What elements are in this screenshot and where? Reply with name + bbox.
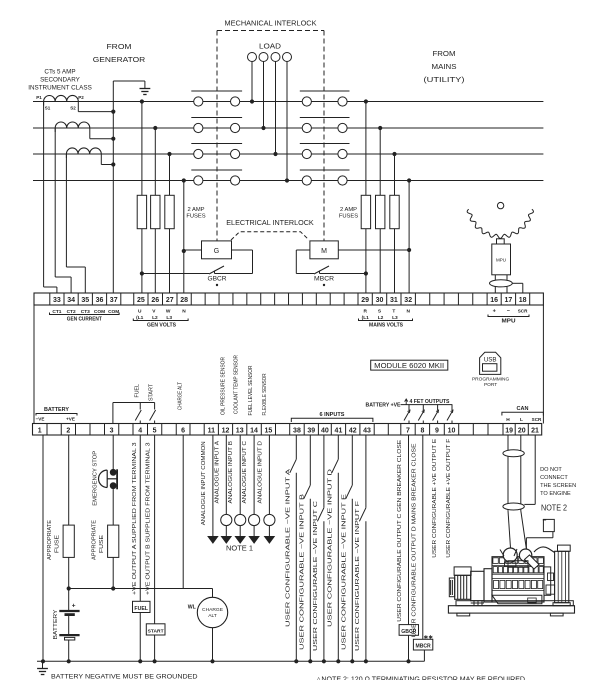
svg-text:N: N	[406, 309, 410, 315]
front pulleys	[546, 585, 555, 594]
svg-text:MBCR: MBCR	[415, 644, 431, 650]
svg-text:2 AMP: 2 AMP	[340, 207, 357, 213]
svg-text:32: 32	[404, 297, 412, 304]
svg-text:FLEXIBLE SENSOR: FLEXIBLE SENSOR	[262, 373, 268, 415]
wire GBCR to bus	[408, 635, 410, 661]
FET output contact at x=437.6	[437, 405, 439, 410]
svg-text:MBCR: MBCR	[314, 276, 334, 283]
wire e-stop to fuse 2	[112, 485, 114, 525]
charge alternator	[197, 597, 227, 627]
svg-text:6: 6	[181, 427, 185, 434]
injector row	[494, 580, 499, 588]
svg-text:NOTE 2: NOTE 2	[541, 504, 567, 513]
svg-text:USER CONFIGURABLE −VE INPUT E: USER CONFIGURABLE −VE INPUT E	[341, 493, 347, 650]
alternator drum	[455, 575, 471, 599]
svg-text:P2: P2	[78, 95, 84, 100]
svg-text:ANALOGUE INPUT D: ANALOGUE INPUT D	[257, 441, 263, 504]
earth ground symbol (CT common)	[140, 88, 151, 90]
MPU wires to terminals 16 17	[494, 275, 496, 293]
svg-text:41: 41	[335, 427, 343, 434]
svg-text:P1: P1	[36, 95, 42, 100]
svg-text:FUEL: FUEL	[134, 606, 148, 612]
MPU plug	[497, 239, 505, 244]
svg-text:TO ENGINE: TO ENGINE	[540, 491, 571, 497]
svg-text:27: 27	[166, 297, 174, 304]
battery cell symbol	[68, 589, 70, 611]
svg-text:5: 5	[153, 427, 157, 434]
CT coil CT3	[66, 148, 101, 154]
svg-text:14: 14	[250, 427, 258, 434]
MPU twisted pair loop	[490, 280, 513, 287]
svg-text:USER CONFIGURABLE +VE OUTPUT F: USER CONFIGURABLE +VE OUTPUT F	[446, 438, 452, 558]
wire CT3 S1 to terminal 35	[65, 154, 67, 267]
bus row 1 wire	[33, 101, 543, 103]
svg-text:USB: USB	[484, 356, 497, 363]
alternator legs	[473, 601, 475, 606]
wire gen fuse1 outlet to terminal 25	[141, 274, 143, 294]
svg-text:R: R	[363, 309, 367, 315]
svg-text:37: 37	[110, 297, 118, 304]
svg-text:+VE OUTPUT A SUPPLIED FROM TER: +VE OUTPUT A SUPPLIED FROM TERMINAL 3	[132, 443, 138, 596]
MPU screen wire to terminal 18	[512, 282, 523, 284]
radiator core	[555, 551, 569, 602]
svg-text:CTs 5 AMP: CTs 5 AMP	[44, 69, 75, 76]
engine mounts	[500, 550, 504, 557]
fuse F4 (mains 2A)	[361, 195, 370, 228]
svg-text:USER CONFIGURABLE OUTPUT D MAI: USER CONFIGURABLE OUTPUT D MAINS BREAKER…	[411, 443, 417, 638]
svg-text:19: 19	[505, 427, 513, 434]
terminating resistor (note 2)	[525, 538, 527, 550]
contactor coil M	[310, 241, 338, 259]
svg-text:OIL PRESSURE SENSOR: OIL PRESSURE SENSOR	[220, 357, 226, 415]
svg-text:FUEL: FUEL	[134, 384, 140, 398]
auxiliary contact MBCR	[296, 273, 314, 275]
battery negative bus	[37, 660, 424, 662]
FET output contact at x=409	[408, 405, 410, 410]
wire CT2 S1 to terminal 34	[54, 128, 56, 277]
svg-text:USER CONFIGURABLE −VE INPUT F: USER CONFIGURABLE −VE INPUT F	[355, 500, 361, 651]
wire mains fuse1 outlet to terminal 29	[365, 274, 367, 294]
oil pan	[492, 595, 542, 604]
wire mains fuse 2 to terminal 30	[379, 229, 381, 293]
svg-text:MPU: MPU	[502, 319, 516, 325]
load feeder 3	[275, 62, 277, 155]
svg-text:20: 20	[518, 427, 526, 434]
generator contactor pole 3	[191, 143, 242, 145]
svg-text:T: T	[392, 309, 395, 315]
svg-text:START: START	[149, 383, 155, 401]
wire terminal 5 to START box	[154, 435, 156, 624]
wire gen neutral row4 to terminal 28	[182, 178, 186, 182]
CT coil CT2	[55, 122, 90, 128]
svg-text:ANALOGUE INPUT A: ANALOGUE INPUT A	[214, 441, 220, 504]
relay MBCR	[413, 639, 432, 650]
wire row1 to gen fuse 1	[140, 99, 144, 103]
svg-text:FROM: FROM	[107, 42, 132, 51]
svg-text:4: 4	[138, 427, 142, 434]
svg-text:MECHANICAL INTERLOCK: MECHANICAL INTERLOCK	[225, 19, 317, 28]
wire START box to bus	[154, 635, 156, 661]
svg-text:BATTERY NEGATIVE MUST BE GROUN: BATTERY NEGATIVE MUST BE GROUNDED	[51, 674, 198, 680]
svg-text:ELECTRICAL INTERLOCK: ELECTRICAL INTERLOCK	[226, 220, 314, 227]
svg-text:GENERATOR: GENERATOR	[93, 55, 146, 64]
wire mains fuse 1 to terminal 29	[365, 229, 367, 274]
mains contactor pole 3	[300, 143, 350, 145]
svg-text:G: G	[214, 248, 219, 255]
mains contactor pole 4	[300, 169, 350, 171]
CT common bus wire	[112, 81, 114, 293]
load feeder 2	[263, 62, 265, 129]
wire FUEL box to bus	[139, 613, 141, 662]
load feeder 4	[286, 62, 288, 181]
crankcase line	[492, 589, 544, 591]
analogue input wire terminal 11	[212, 435, 214, 536]
analogue input wire terminal 15	[268, 435, 270, 514]
svg-text:USER CONFIGURABLE −VE INPUT A: USER CONFIGURABLE −VE INPUT A	[285, 468, 291, 627]
air pipe to radiator	[534, 547, 555, 553]
svg-text:34: 34	[67, 297, 75, 304]
svg-text:GEN CURRENT: GEN CURRENT	[67, 317, 102, 323]
svg-text:+: +	[493, 309, 496, 315]
svg-text:SCR: SCR	[518, 309, 528, 314]
svg-text:40: 40	[321, 427, 329, 434]
engine block	[492, 557, 544, 602]
electrical interlock dashed link	[231, 232, 309, 240]
svg-text:USER CONFIGURABLE −VE INPUT D: USER CONFIGURABLE −VE INPUT D	[327, 469, 333, 627]
fuse F2 (gen 2A)	[151, 195, 160, 228]
svg-text:21: 21	[531, 427, 539, 434]
svg-text:START: START	[148, 628, 164, 634]
svg-text:15: 15	[265, 427, 273, 434]
svg-text:43: 43	[363, 427, 371, 434]
wire M coil to mains neutral	[338, 249, 409, 251]
fuse F1 (gen 2A)	[137, 195, 146, 228]
bracket GEN CURRENT	[50, 313, 120, 315]
svg-text:BATTERY: BATTERY	[44, 407, 70, 413]
wire fuse to battery rail	[68, 557, 70, 588]
svg-text:EMERGENCY STOP: EMERGENCY STOP	[93, 450, 99, 505]
svg-text:3: 3	[110, 427, 114, 434]
input wire terminal 42	[351, 435, 353, 485]
block mid line	[492, 573, 544, 575]
svg-text:USER CONFIGURABLE OUTPUT C GEN: USER CONFIGURABLE OUTPUT C GEN BREAKER C…	[397, 439, 403, 621]
flywheel housing	[484, 569, 492, 602]
svg-text:USER CONFIGURABLE −VE INPUT B: USER CONFIGURABLE −VE INPUT B	[299, 493, 305, 650]
svg-text:LOAD: LOAD	[259, 44, 281, 51]
output wire terminal 8 to MBCR	[422, 435, 424, 639]
svg-text:WL: WL	[188, 605, 197, 611]
CAN twisted pair loop 2	[503, 503, 524, 510]
fuse F3 (gen 2A)	[165, 195, 174, 228]
wire rail to charge alt WL	[212, 589, 214, 598]
input wire terminal 41	[337, 435, 339, 459]
svg-text:CAN: CAN	[517, 406, 529, 412]
wire mains neutral row4 to terminal 32	[407, 178, 411, 182]
turbo left	[503, 548, 517, 562]
front gear housing	[544, 567, 551, 595]
svg-text:FUSE: FUSE	[99, 535, 105, 553]
fuel-start rail	[112, 403, 114, 424]
svg-text:1: 1	[38, 427, 42, 434]
contactor coil G	[202, 241, 232, 259]
wire mains row2 to fuse 2	[378, 126, 382, 130]
svg-text:GEN VOLTS: GEN VOLTS	[147, 323, 177, 329]
svg-text:10: 10	[448, 427, 456, 434]
input wire terminal 43	[365, 435, 367, 508]
svg-text:25: 25	[137, 297, 145, 304]
svg-text:2 AMP: 2 AMP	[187, 207, 204, 213]
CT coil CT1	[44, 95, 79, 101]
svg-text:16: 16	[490, 297, 498, 304]
svg-text:CHARGE ALT: CHARGE ALT	[178, 381, 184, 410]
cylinder head band	[492, 565, 544, 567]
label MODULE 6020 MKII	[371, 360, 448, 370]
relay GBCR	[399, 625, 418, 636]
START relay box	[146, 624, 165, 635]
input wire terminal 40	[323, 435, 325, 508]
svg-text:MODULE 6020 MKII: MODULE 6020 MKII	[374, 363, 444, 370]
svg-text:29: 29	[361, 297, 369, 304]
analogue input wire terminal 12	[225, 435, 227, 514]
mechanical interlock dashed box	[217, 30, 324, 32]
wire N-bus to G coil	[182, 249, 186, 253]
svg-text:9: 9	[435, 427, 439, 434]
svg-text:FROM: FROM	[433, 49, 456, 58]
generator contactor pole 1	[191, 90, 242, 92]
svg-text:U: U	[138, 309, 142, 315]
bus row 3 wire	[33, 153, 543, 155]
svg-text:PORT: PORT	[484, 382, 497, 388]
mains contactor pole 2	[300, 117, 350, 119]
svg-text:28: 28	[180, 297, 188, 304]
exhaust elbow	[525, 555, 540, 569]
genset sub-rail	[456, 601, 573, 606]
wire terminal 6 to charge alt rail	[182, 435, 184, 589]
svg-text:30: 30	[376, 297, 384, 304]
generator contactor pole 4	[191, 169, 242, 171]
svg-text:APPROPRIATE: APPROPRIATE	[92, 520, 98, 560]
svg-text:8: 8	[420, 427, 424, 434]
svg-text:SCR: SCR	[532, 417, 542, 422]
fuse F5 (mains 2A)	[376, 195, 385, 228]
svg-text:38: 38	[293, 427, 301, 434]
svg-text:4 FET OUTPUTS: 4 FET OUTPUTS	[410, 399, 451, 405]
wire row2 to gen fuse 2	[153, 126, 157, 130]
svg-text:+VE OUTPUT B SUPPLIED FROM TER: +VE OUTPUT B SUPPLIED FROM TERMINAL 3	[146, 443, 152, 596]
skid foot left	[457, 613, 470, 616]
svg-text:18: 18	[519, 297, 527, 304]
wire M coil to MBCR	[296, 249, 310, 251]
svg-text:GBCR: GBCR	[208, 276, 227, 283]
svg-text:BATTERY +VE: BATTERY +VE	[366, 402, 402, 408]
svg-text:COOLANT TEMP SENSOR: COOLANT TEMP SENSOR	[234, 355, 240, 414]
wire row3 to gen fuse 3	[167, 152, 171, 156]
svg-text:MAINS: MAINS	[432, 62, 457, 71]
svg-text:ANALOGUE INPUT C: ANALOGUE INPUT C	[242, 441, 248, 504]
load feeder 1	[251, 62, 253, 102]
svg-text:H: H	[506, 417, 510, 423]
input wire terminal 38	[295, 435, 297, 459]
wire MBCR to bus	[423, 650, 425, 661]
wire gen fuse 2 to terminal 26	[154, 229, 156, 293]
gear center mark	[497, 202, 503, 208]
wire G coil to GBCR	[232, 249, 253, 251]
earth ground (battery negative)	[42, 661, 44, 668]
svg-text:S1: S1	[45, 106, 51, 111]
wire fuse2 to battery rail	[112, 557, 114, 588]
alternator adapter	[471, 571, 484, 600]
svg-text:26: 26	[151, 297, 159, 304]
svg-text:ALT: ALT	[208, 613, 217, 619]
svg-text:APPROPRIATE: APPROPRIATE	[47, 520, 53, 560]
rocker covers	[493, 558, 498, 564]
svg-text:S2: S2	[70, 106, 76, 111]
svg-text:33: 33	[53, 297, 61, 304]
svg-text:7: 7	[406, 427, 410, 434]
svg-text:CHARGE: CHARGE	[202, 607, 224, 613]
wire terminal 4 to FUEL box	[139, 435, 141, 601]
svg-text:6 INPUTS: 6 INPUTS	[320, 412, 346, 418]
contact output START	[154, 403, 156, 410]
wire terminal 3 down	[112, 435, 114, 472]
svg-text:USER CONFIGURABLE −VE INPUT C: USER CONFIGURABLE −VE INPUT C	[313, 501, 319, 651]
svg-text:36: 36	[96, 297, 104, 304]
input wire terminal 39	[309, 435, 311, 485]
wire gen fuse 1 to terminal 25	[141, 229, 143, 274]
svg-text:THE SCREEN: THE SCREEN	[540, 483, 576, 489]
svg-text:W: W	[166, 309, 171, 315]
svg-text:MAINS VOLTS: MAINS VOLTS	[369, 323, 404, 329]
svg-text:17: 17	[505, 297, 513, 304]
flywheel gear teeth	[467, 209, 533, 238]
generator contactor pole 2	[191, 117, 242, 119]
svg-text:SECONDARY: SECONDARY	[40, 77, 81, 84]
CAN wires to engine ECU	[508, 511, 511, 548]
battery positive rail	[69, 588, 213, 590]
module body outline	[33, 305, 35, 424]
FUEL relay box	[133, 601, 151, 612]
analogue input wire terminal 14	[253, 435, 255, 514]
svg-text:FUSE: FUSE	[55, 535, 61, 553]
svg-text:+: +	[72, 603, 76, 610]
svg-text:INSTRUMENT CLASS: INSTRUMENT CLASS	[28, 85, 92, 92]
output wire terminal 7 to GBCR	[408, 435, 410, 625]
fuse appropriate (e-stop)	[108, 525, 119, 557]
svg-text:△NOTE 2: 120 Ω TERMINATING RES: △NOTE 2: 120 Ω TERMINATING RESISTOR MAY …	[316, 674, 525, 680]
CAN twisted pair loop 1	[503, 450, 524, 457]
wire mains fuse 3 to terminal 31	[394, 229, 396, 293]
radiator base	[553, 603, 570, 606]
CAN L wire	[520, 435, 522, 511]
svg-text:+VE: +VE	[66, 416, 75, 421]
svg-text:FUEL LEVEL SENSOR: FUEL LEVEL SENSOR	[248, 365, 254, 415]
engine top housing	[508, 561, 528, 568]
svg-text:2: 2	[66, 427, 70, 434]
bus row 4 wire	[33, 180, 543, 182]
svg-text:L: L	[520, 417, 523, 423]
genset base skid	[448, 606, 574, 613]
fuse F6 (mains 2A)	[390, 195, 399, 228]
svg-text:31: 31	[390, 297, 398, 304]
svg-text:CONNECT: CONNECT	[540, 475, 568, 481]
wire gen fuse 3 to terminal 27	[169, 229, 171, 293]
bus row 2 wire	[33, 127, 543, 129]
analogue input wire terminal 13	[239, 435, 241, 514]
bracket MAINS VOLTS	[359, 319, 413, 321]
svg-text:FUSES: FUSES	[339, 214, 358, 220]
alternator end cap	[449, 578, 454, 597]
skid foot right	[550, 613, 563, 616]
turbo right	[519, 549, 531, 561]
svg-text:FUSES: FUSES	[186, 214, 205, 220]
svg-text:12: 12	[222, 427, 230, 434]
svg-text:ANALOGUE INPUT B: ANALOGUE INPUT B	[228, 441, 234, 504]
CAN H wire	[507, 435, 509, 511]
wire mains row1 to fuse 1	[364, 99, 368, 103]
svg-text:42: 42	[349, 427, 357, 434]
fuse appropriate (battery +)	[63, 525, 74, 557]
bracket MPU	[488, 315, 529, 317]
wire mains row3 to fuse 3	[392, 152, 396, 156]
svg-text:∗∗: ∗∗	[423, 635, 433, 641]
alternator top box	[454, 567, 471, 575]
wire charge alt to bus	[212, 628, 214, 662]
wire CT1 S1 to terminal 33	[43, 102, 45, 288]
module bottom terminal strip	[33, 424, 542, 436]
svg-text:39: 39	[307, 427, 315, 434]
svg-text:MPU: MPU	[496, 258, 506, 263]
CAN screen wire	[534, 435, 536, 504]
bracket GEN VOLTS	[133, 319, 188, 321]
contact output FUEL	[139, 403, 141, 410]
FET output contact at x=452.0	[451, 405, 453, 410]
svg-text:13: 13	[236, 427, 244, 434]
svg-text:11: 11	[208, 427, 216, 434]
svg-text:DO NOT: DO NOT	[540, 467, 562, 473]
svg-text:NOTE 1: NOTE 1	[226, 544, 253, 553]
svg-text:−VE: −VE	[36, 416, 45, 421]
module top terminal strip	[34, 293, 543, 305]
wire terminal 1 to bus	[42, 435, 44, 661]
wire terminal 2 down	[68, 435, 70, 525]
FET output contact at x=423.3	[422, 405, 424, 410]
MPU body	[492, 244, 511, 275]
svg-text:ANALOGUE INPUT COMMON: ANALOGUE INPUT COMMON	[201, 441, 207, 525]
svg-text:BATTERY: BATTERY	[53, 609, 59, 639]
svg-text:M: M	[321, 248, 327, 255]
svg-text:35: 35	[81, 297, 89, 304]
svg-text:(UTILITY): (UTILITY)	[424, 75, 466, 84]
emergency stop contact	[110, 469, 117, 476]
svg-text:N: N	[182, 309, 186, 315]
svg-text:USER CONFIGURABLE +VE OUTPUT E: USER CONFIGURABLE +VE OUTPUT E	[432, 438, 438, 557]
FET output rail	[401, 404, 453, 406]
USB programming port icon	[480, 352, 501, 374]
radiator top tank	[558, 545, 571, 551]
auxiliary contact GBCR	[215, 273, 253, 275]
svg-text:PROGRAMMING: PROGRAMMING	[472, 376, 510, 382]
svg-text:−: −	[507, 309, 510, 315]
mains contactor pole 1	[300, 90, 350, 92]
